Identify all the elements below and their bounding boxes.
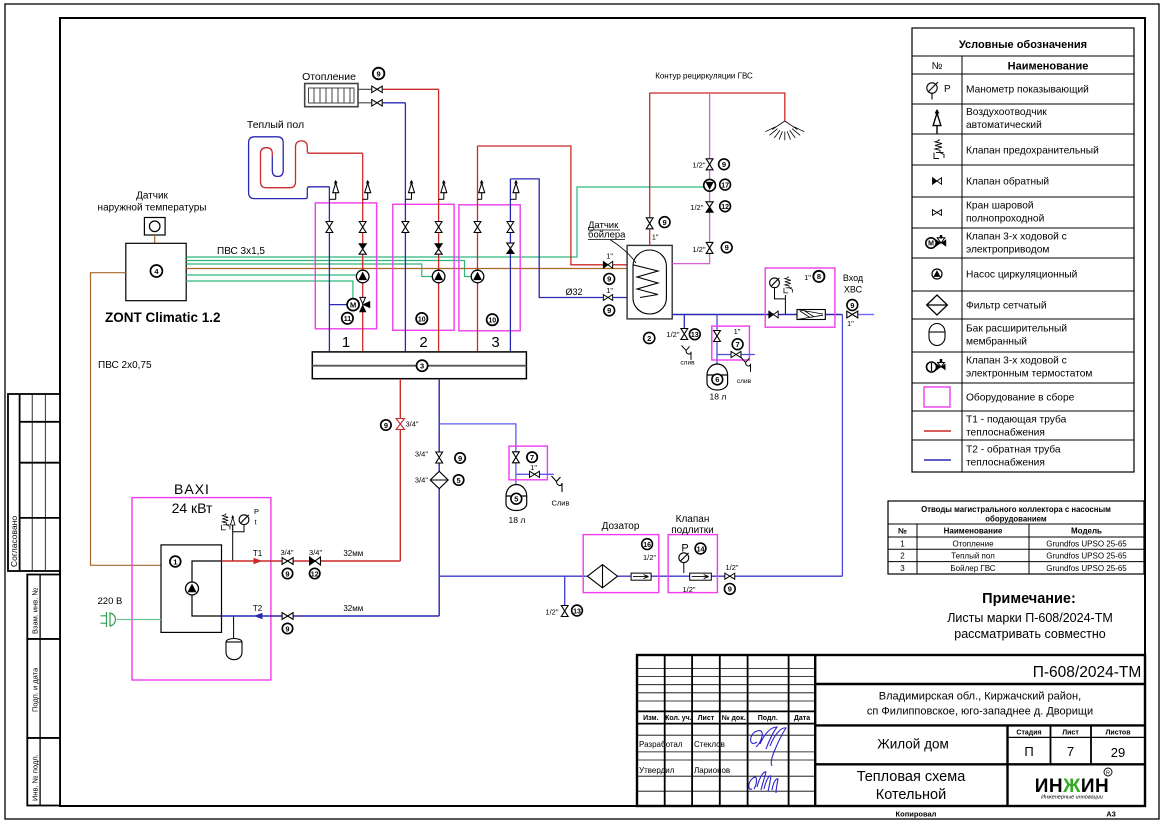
svg-text:2: 2 (900, 552, 905, 561)
pump group1 (356, 270, 369, 283)
stamp box Взам. инв. № (27, 575, 60, 640)
svg-text:Разработал: Разработал (639, 740, 683, 749)
svg-text:Кран шаровой: Кран шаровой (966, 201, 1034, 212)
BAXI equipment magenta box (132, 498, 271, 680)
header labels (643, 714, 810, 722)
make-up feed line (439, 575, 842, 577)
svg-text:Насос циркуляционный: Насос циркуляционный (966, 270, 1077, 281)
ball valve T2 (282, 613, 293, 620)
legend table frame (912, 28, 1134, 472)
air vent 1 (329, 180, 338, 199)
svg-text:10: 10 (418, 316, 426, 323)
svg-text:Наименование: Наименование (944, 527, 1003, 536)
drain line with check valve (516, 473, 554, 475)
riser T1 collector to boiler (399, 379, 401, 561)
cold water main pipe (672, 314, 842, 316)
ball valve on tank return (603, 295, 612, 301)
expansion tank 18l (506, 485, 527, 511)
legend T2 return line symbol (924, 459, 951, 461)
warm floor coil blue part (249, 137, 330, 199)
drain branch with valve 13 (666, 315, 687, 340)
3-way motor valve (347, 297, 370, 311)
svg-text:1": 1" (847, 319, 854, 328)
svg-text:3/4": 3/4" (406, 420, 419, 429)
position circle 13 (572, 605, 583, 616)
legend air vent symbol (933, 110, 941, 135)
stamp box Инв. № подл. (27, 738, 60, 806)
expansion tank magenta box (509, 446, 547, 480)
svg-text:ПВС 3х1,5: ПВС 3х1,5 (217, 246, 265, 257)
legend safety valve symbol (934, 139, 944, 159)
svg-text:автоматический: автоматический (966, 120, 1042, 131)
svg-text:9: 9 (377, 69, 381, 78)
svg-text:13: 13 (691, 332, 699, 339)
svg-text:Согласовано: Согласовано (9, 516, 19, 567)
radiator valve return (372, 100, 382, 106)
svg-text:9: 9 (663, 218, 667, 227)
svg-text:Отопление: Отопление (302, 71, 356, 83)
position circle 10b (487, 314, 498, 325)
svg-text:№: № (932, 61, 943, 72)
svg-text:бойлера: бойлера (588, 230, 626, 241)
svg-text:Ø32: Ø32 (565, 287, 582, 297)
position circle 11 (342, 313, 353, 324)
position circle 5 (453, 475, 463, 485)
svg-text:рассматривать совместно: рассматривать совместно (954, 627, 1105, 641)
ball valve recirc bottom (706, 242, 713, 253)
safety group line (232, 517, 234, 561)
svg-text:Клапан предохранительный: Клапан предохранительный (966, 146, 1099, 157)
position circle 12 (310, 568, 320, 578)
ball valve group3 supply (474, 222, 481, 233)
position circle 4 (150, 265, 162, 277)
pressure gauge (239, 515, 249, 525)
expansion vessel of boiler (233, 616, 235, 639)
pipe T2 into boiler (222, 615, 440, 617)
ball valve group1 return (326, 222, 333, 233)
make-up branch to expansion tank (716, 315, 718, 365)
svg-text:Котельной: Котельной (876, 787, 946, 803)
svg-text:Датчик: Датчик (136, 191, 168, 202)
svg-text:9: 9 (850, 301, 854, 310)
svg-text:1": 1" (804, 273, 811, 282)
svg-text:Подл.: Подл. (758, 715, 778, 722)
position circle 9 (659, 217, 670, 228)
position circle 1 (170, 556, 181, 567)
svg-text:9: 9 (607, 275, 611, 284)
svg-text:Воздухоотводчик: Воздухоотводчик (966, 107, 1047, 118)
legend check valve symbol (932, 178, 941, 185)
position circle 12 (720, 201, 731, 212)
title block left grid thin rows (637, 669, 815, 702)
svg-text:Наименование: Наименование (1008, 61, 1089, 73)
position circle 9 (282, 568, 292, 578)
svg-text:слив: слив (737, 378, 752, 385)
svg-text:8: 8 (817, 272, 821, 281)
drain hook (741, 358, 750, 372)
signature rows (639, 740, 730, 775)
svg-text:Клапан 3-х ходовой с: Клапан 3-х ходовой с (966, 232, 1067, 243)
position circle 9 (604, 305, 615, 316)
position circle 9 (719, 159, 730, 170)
make-up gauge (679, 553, 689, 563)
strainer on riser T2 (430, 471, 448, 488)
svg-text:Вход: Вход (843, 273, 864, 283)
pressure gauge (770, 278, 780, 288)
safety valve (784, 276, 793, 293)
wire green C to pump 2 (186, 264, 433, 277)
svg-text:электроприводом: электроприводом (966, 245, 1049, 256)
check valve recirc (706, 202, 713, 212)
collector (312, 352, 526, 379)
svg-text:Лист: Лист (698, 715, 715, 722)
svg-text:1/2": 1/2" (666, 330, 679, 339)
stage/sheet columns (1006, 725, 1008, 806)
radiator connectors (358, 89, 371, 103)
legend ball valve symbol (932, 210, 941, 216)
position circle 9 (724, 584, 735, 595)
svg-text:1/2": 1/2" (725, 563, 738, 572)
svg-text:мембранный: мембранный (966, 336, 1027, 348)
svg-text:Изм.: Изм. (643, 715, 659, 722)
svg-text:Листы марки П-608/2024-ТМ: Листы марки П-608/2024-ТМ (947, 611, 1113, 625)
check valve group1 (359, 244, 366, 254)
group 2 return pipe blue (404, 103, 406, 352)
stamp box Подп. и дата (27, 639, 60, 738)
svg-text:7: 7 (1067, 744, 1074, 759)
radiator (305, 84, 358, 107)
expansion tank magenta box (712, 326, 750, 360)
svg-text:Grundfos UPSO 25-65: Grundfos UPSO 25-65 (1046, 564, 1127, 573)
position circle 9 (455, 453, 465, 463)
svg-text:3: 3 (491, 334, 499, 351)
svg-text:14: 14 (697, 546, 705, 553)
warm floor coil red part (261, 141, 363, 188)
svg-text:13: 13 (573, 608, 581, 615)
svg-text:Условные обозначения: Условные обозначения (959, 39, 1087, 51)
radiator supply pipe red (383, 88, 439, 90)
svg-text:1": 1" (530, 463, 537, 472)
position circle 2 (644, 332, 655, 343)
svg-text:Т1: Т1 (253, 549, 263, 558)
wire sensor to controller (154, 235, 156, 243)
inlet stub bright blue (859, 314, 875, 316)
position circle 7 (527, 452, 537, 462)
svg-text:3/4": 3/4" (415, 450, 428, 459)
svg-text:17: 17 (721, 182, 729, 189)
svg-text:наружной температуры: наружной температуры (98, 203, 207, 214)
svg-text:№: № (898, 527, 907, 536)
svg-text:Взам. инв. №: Взам. инв. № (31, 588, 40, 634)
make-up ball valve (725, 573, 735, 579)
title block main frame (637, 655, 1145, 806)
svg-text:24 кВт: 24 кВт (172, 500, 213, 516)
legend T1 supply line symbol (924, 430, 951, 432)
approval stamp block (8, 394, 60, 571)
svg-text:подлитки: подлитки (671, 525, 714, 536)
svg-text:5: 5 (457, 476, 461, 485)
inlet equipment magenta box (765, 268, 835, 327)
svg-text:электронным термостатом: электронным термостатом (966, 369, 1092, 380)
legend strainer symbol (927, 295, 948, 315)
position circle 9 (721, 242, 732, 253)
group 1 supply pipe red (362, 153, 364, 352)
svg-text:Клапан 3-х ходовой с: Клапан 3-х ходовой с (966, 356, 1067, 367)
svg-text:16: 16 (643, 542, 651, 549)
svg-text:оборудованием: оборудованием (985, 515, 1047, 524)
svg-text:3/4": 3/4" (415, 476, 428, 485)
svg-text:слив: слив (680, 360, 695, 367)
legend 3-way motor valve symbol (926, 235, 946, 248)
boiler internal loop (192, 561, 222, 616)
svg-text:1/2": 1/2" (643, 553, 656, 562)
svg-text:сп Филипповское, юго-западнее: сп Филипповское, юго-западнее д. Дворищи (867, 706, 1093, 718)
ball valve on DHW pipe (646, 218, 653, 229)
strainer filter (797, 310, 825, 320)
svg-text:Утвердил: Утвердил (639, 766, 675, 775)
svg-text:9: 9 (458, 454, 462, 463)
boiler unit box (161, 545, 222, 633)
svg-text:Тепловая схема: Тепловая схема (857, 769, 967, 785)
ball valve T1 (282, 558, 293, 565)
svg-text:Стадия: Стадия (1016, 729, 1041, 736)
group 3 supply pipe red (477, 146, 479, 352)
ball valve on riser T2 (436, 452, 443, 463)
svg-text:№ док.: № док. (722, 714, 746, 722)
svg-text:Слив: Слив (552, 499, 570, 508)
svg-text:Т2 - обратная труба: Т2 - обратная труба (966, 444, 1061, 456)
pump equipment table (888, 501, 1144, 574)
svg-text:Владимирская обл., Киржачский: Владимирская обл., Киржачский район, (879, 691, 1081, 703)
radiator valve supply (372, 86, 382, 92)
DHW tank (627, 245, 672, 319)
position circle 8 (813, 271, 824, 282)
svg-text:Инв. № подл.: Инв. № подл. (31, 754, 40, 801)
svg-text:Ларионов: Ларионов (694, 766, 730, 775)
position circle 3 (417, 360, 428, 371)
check valve on tank supply (603, 261, 612, 268)
group 3 return from tank blue (510, 179, 640, 298)
svg-text:5: 5 (514, 495, 518, 504)
svg-text:теплоснабжения: теплоснабжения (966, 427, 1045, 439)
svg-text:2: 2 (647, 334, 651, 343)
svg-text:3/4": 3/4" (309, 548, 322, 557)
recirculation pump (704, 179, 716, 191)
svg-text:ZONT Climatic 1.2: ZONT Climatic 1.2 (105, 310, 221, 325)
svg-text:Р: Р (944, 84, 951, 95)
svg-text:Примечание:: Примечание: (982, 591, 1076, 607)
svg-text:Отопление: Отопление (952, 539, 994, 548)
drain hook (552, 476, 563, 492)
svg-text:7: 7 (530, 453, 534, 462)
ball valve group2 supply (435, 222, 442, 233)
svg-text:Т1 - подающая труба: Т1 - подающая труба (966, 414, 1067, 426)
pump group2 (432, 270, 445, 283)
svg-text:32мм: 32мм (343, 604, 363, 613)
position circle 10 (416, 313, 427, 324)
svg-text:9: 9 (285, 569, 289, 578)
check valve T1 (310, 557, 321, 565)
svg-text:Дата: Дата (794, 715, 810, 722)
group 3 supply to tank red (478, 146, 633, 265)
svg-text:9: 9 (728, 585, 732, 594)
svg-text:1/2": 1/2" (545, 608, 558, 617)
air vent 3 (405, 180, 414, 199)
svg-text:Дозатор: Дозатор (602, 521, 640, 532)
group 3 return pipe blue (509, 179, 511, 352)
ball valve recirc top (706, 159, 713, 170)
svg-text:Жилой дом: Жилой дом (877, 737, 949, 752)
right part horizontals (815, 684, 1145, 764)
check valve group2 (435, 244, 442, 254)
boiler sensor label (588, 220, 636, 263)
svg-text:Клапан обратный: Клапан обратный (966, 176, 1049, 188)
svg-text:9: 9 (285, 624, 289, 633)
svg-text:3/4": 3/4" (280, 548, 293, 557)
svg-text:7: 7 (736, 340, 740, 349)
expansion tank 18l boiler side (707, 364, 728, 390)
svg-text:полнопроходной: полнопроходной (966, 214, 1044, 225)
position circle 13 (689, 329, 700, 340)
feed drain branch (545, 576, 568, 616)
legend pump symbol (932, 269, 942, 279)
legend expansion tank symbol (929, 324, 945, 346)
svg-text:Инженерные инновации: Инженерные инновации (1041, 795, 1103, 801)
inlet ball valve (847, 311, 858, 318)
flow arrow T1 (254, 558, 263, 564)
company logo (1035, 768, 1112, 801)
air vent 6 (510, 180, 519, 199)
ball valve group2 return (402, 222, 409, 233)
svg-text:220 В: 220 В (98, 596, 123, 607)
svg-text:1": 1" (606, 252, 613, 261)
dosing unit magenta box (583, 535, 659, 593)
signature scribbles (749, 727, 786, 793)
pump group box 3 (459, 205, 520, 331)
svg-text:ХВС: ХВС (844, 285, 863, 295)
riser T2 collector to boiler (438, 379, 440, 616)
pump group box 1 (315, 203, 376, 329)
svg-text:Манометр показывающий: Манометр показывающий (966, 85, 1089, 96)
svg-text:Стеклов: Стеклов (694, 740, 725, 749)
svg-text:Оборудование в сборе: Оборудование в сборе (966, 392, 1075, 404)
svg-text:Бойлер ГВС: Бойлер ГВС (950, 564, 995, 573)
legend manometer symbol (927, 82, 951, 99)
position circle 7 (732, 339, 743, 350)
air vent 4 (439, 180, 447, 199)
svg-text:6: 6 (715, 375, 719, 384)
position circle 9 (373, 68, 385, 80)
svg-text:BAXI: BAXI (174, 481, 210, 497)
pump group box 2 (393, 204, 454, 330)
outdoor temperature sensor (144, 218, 165, 236)
svg-text:18 л: 18 л (710, 392, 727, 402)
svg-text:Теплый пол: Теплый пол (247, 119, 304, 131)
air vent 2 (363, 180, 371, 199)
position circle 9 (381, 420, 391, 430)
svg-text:Копировал: Копировал (896, 810, 937, 819)
air vent (230, 516, 235, 531)
dosing injector (631, 573, 651, 580)
legend 3-way thermostat valve symbol (927, 359, 946, 372)
svg-text:10: 10 (488, 318, 496, 325)
wire green B to pump 3 (186, 261, 471, 277)
position circle 14 (695, 543, 706, 554)
svg-text:Бак расширительный: Бак расширительный (966, 324, 1067, 335)
svg-text:П-608/2024-ТМ: П-608/2024-ТМ (1033, 664, 1142, 681)
svg-text:11: 11 (344, 316, 352, 323)
svg-text:ПВС 2х0,75: ПВС 2х0,75 (98, 360, 152, 371)
svg-text:32мм: 32мм (343, 549, 363, 558)
svg-text:9: 9 (607, 306, 611, 315)
position circle 9 (604, 274, 615, 285)
position circle 16 (642, 539, 653, 550)
position circle 5b (511, 493, 522, 504)
wire green A to DHW pump (186, 187, 704, 257)
DHW hot pipe red (650, 93, 785, 245)
drain hook (682, 346, 691, 360)
svg-text:Теплый пол: Теплый пол (951, 552, 995, 561)
wire green E to 3-way valve (186, 281, 353, 300)
group 2 supply pipe red (438, 89, 440, 352)
air vent 5 (478, 180, 485, 199)
svg-text:А3: А3 (1106, 810, 1116, 819)
check valve group3 (507, 243, 514, 253)
boiler pump (186, 582, 199, 595)
flow arrow T2 (254, 613, 263, 619)
wire green D to pump 1 (186, 274, 357, 276)
svg-text:M: M (928, 241, 934, 248)
wire brown to BAXI (91, 273, 162, 566)
svg-text:Модель: Модель (1071, 527, 1102, 536)
wire brown to boiler sensor (186, 268, 635, 270)
check valve inlet (769, 311, 778, 318)
ball valve expansion branch (513, 452, 520, 463)
svg-text:1/2": 1/2" (690, 203, 703, 212)
controller ZONT box (126, 243, 186, 300)
svg-text:29: 29 (1111, 745, 1125, 760)
svg-text:1: 1 (900, 539, 905, 548)
ball valve (714, 331, 721, 342)
legend assembled equipment symbol (924, 387, 950, 407)
svg-text:9: 9 (725, 243, 729, 252)
pump group3 (471, 270, 484, 283)
svg-text:П: П (1024, 744, 1033, 759)
ball valve group3 return (507, 222, 514, 233)
svg-text:1: 1 (173, 557, 177, 566)
wire 220V to boiler (117, 619, 161, 621)
svg-text:R: R (1106, 771, 1110, 777)
svg-text:1/2": 1/2" (692, 161, 705, 170)
radiator return pipe blue (383, 102, 406, 104)
pressure reducer (690, 573, 712, 580)
group 1 return pipe blue (328, 187, 330, 352)
svg-text:3: 3 (900, 564, 905, 573)
svg-text:2: 2 (419, 334, 427, 351)
svg-text:Подп. и дата: Подп. и дата (31, 667, 40, 712)
svg-text:Grundfos UPSO 25-65: Grundfos UPSO 25-65 (1046, 539, 1127, 548)
position circle 6 (712, 374, 723, 385)
svg-text:Кол. уч.: Кол. уч. (665, 715, 692, 722)
svg-text:1": 1" (734, 327, 741, 336)
power plug symbol (101, 612, 116, 627)
svg-text:3: 3 (420, 362, 424, 371)
3-way valve blue stub (329, 304, 348, 306)
svg-text:Отводы магистрального коллекто: Отводы магистрального коллектора с насос… (921, 505, 1111, 514)
pipe T1 out of boiler (222, 560, 401, 562)
shower head (765, 121, 804, 140)
svg-text:Листов: Листов (1105, 729, 1131, 736)
